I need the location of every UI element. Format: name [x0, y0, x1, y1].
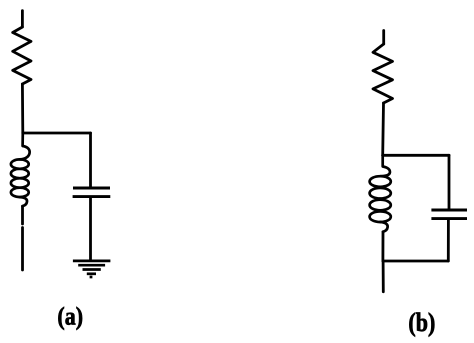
resistor R2 (circuit b): [373, 44, 393, 103]
wire node A horizontal: [23, 132, 91, 135]
wire node to capacitor (b): [448, 155, 451, 208]
wire top lead circuit (a): [21, 11, 24, 27]
inductor L1 (circuit a): [11, 133, 30, 206]
wire inductor to bottom node (b): [381, 232, 384, 261]
wire capacitor to bottom node (b): [447, 220, 450, 261]
label (b): [408, 307, 435, 338]
wire below inductor (a) with small break: [21, 206, 24, 224]
wire capacitor to ground: [89, 198, 92, 259]
resistor R1 (circuit a): [13, 27, 31, 84]
wire resistor to node A: [21, 84, 24, 133]
wire bottom lead (b): [382, 261, 385, 292]
wire bottom horizontal (b): [383, 260, 448, 263]
wire resistor to node B: [381, 103, 385, 155]
inductor L2 (circuit b): [370, 155, 391, 232]
wire node to capacitor (a): [89, 133, 92, 186]
capacitor C1 (circuit a): [73, 188, 111, 197]
capacitor C2 (circuit b): [431, 210, 467, 219]
wire node B horizontal top: [383, 154, 449, 157]
label (a): [57, 302, 83, 331]
wire top lead circuit (b): [382, 31, 385, 45]
ground: [73, 261, 111, 277]
